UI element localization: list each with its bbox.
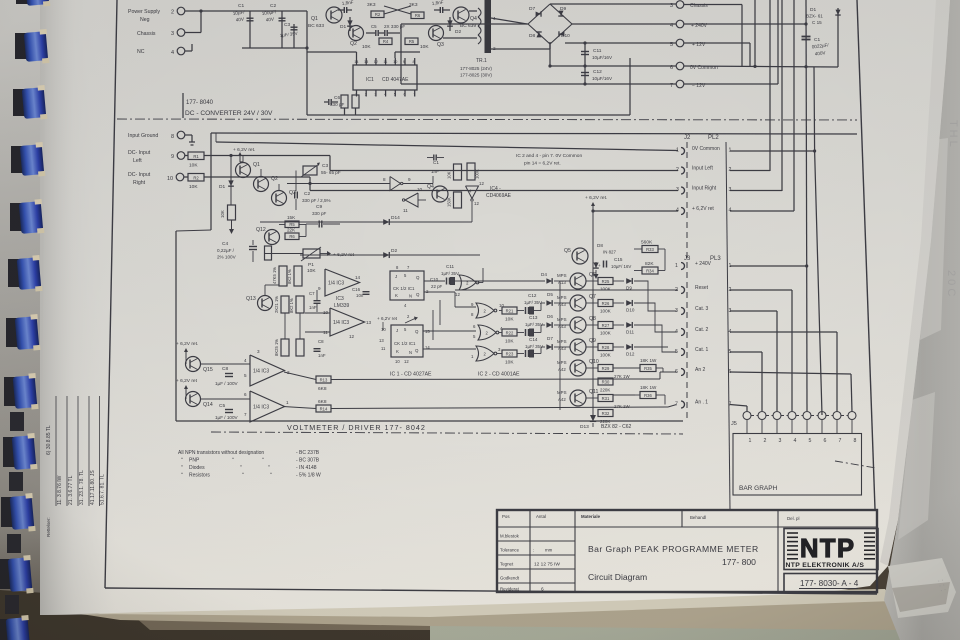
diode D1 converter xyxy=(349,17,351,31)
resistor network below IC1 xyxy=(341,95,348,108)
diode D1 voltmeter xyxy=(230,156,232,206)
wire J2 pin4 right xyxy=(730,210,794,212)
title block row lines xyxy=(497,540,575,542)
J5 dashed pin row xyxy=(751,415,758,417)
resistor R31 27K 1W xyxy=(586,397,598,399)
wire J3 pin2 to riser xyxy=(730,289,792,291)
transistor Q13 xyxy=(258,296,273,311)
PL2 PL3 column line xyxy=(726,142,730,510)
wire gate d output up xyxy=(478,282,484,284)
wires ff to gates xyxy=(424,291,455,293)
wire -12V to right xyxy=(684,83,779,85)
J5 pin 8 xyxy=(848,412,856,420)
transistor Q2 input xyxy=(254,177,269,192)
wire inverter chain xyxy=(403,183,433,185)
wire below IC1 xyxy=(307,114,630,116)
binder ring xyxy=(25,0,51,8)
wire IC1 pin9 up xyxy=(394,52,396,58)
binder ring xyxy=(14,314,40,352)
resistor R10 vertical xyxy=(296,296,304,313)
capacitor C11 converter xyxy=(584,43,586,66)
vertical wire input right riser xyxy=(781,0,783,191)
wire pot line xyxy=(264,253,303,255)
title block outer border xyxy=(497,510,877,592)
inverter IC4 c down xyxy=(466,186,479,199)
diode D13 BZX82-C62 xyxy=(590,415,596,421)
wire Q14 to opamp xyxy=(201,398,251,400)
binder hole xyxy=(1,497,13,527)
op-amp IC3 c xyxy=(250,355,285,386)
stacked sheets right side xyxy=(884,0,960,640)
connector dashed boundary xyxy=(686,142,688,420)
voltmeter section box left lower xyxy=(176,230,211,231)
binder hole xyxy=(15,33,27,59)
wire bridge top to chassis terminal xyxy=(550,3,676,5)
resistor R29 27K 1W xyxy=(586,367,598,369)
resistor R32 220K xyxy=(598,410,613,417)
binder hole xyxy=(8,259,20,287)
wire J2 pin3 right xyxy=(730,190,782,192)
J5 pin 1 xyxy=(743,412,751,420)
converter section box 177-8040 xyxy=(182,93,184,118)
set arrow marker xyxy=(405,318,416,323)
binder ring xyxy=(16,255,42,293)
binder hole xyxy=(10,203,22,231)
vertical wire +240V riser to PL3 xyxy=(805,0,808,266)
wire J3 pin7 to riser xyxy=(730,405,747,407)
binder hole xyxy=(3,437,15,467)
transistor Q4 xyxy=(453,7,469,23)
wire J2 pin1 right xyxy=(730,150,814,152)
vertical wire chassis drop xyxy=(741,5,743,67)
binder hole xyxy=(4,377,16,406)
wire +12V corner xyxy=(684,42,751,44)
wire from Q13 up xyxy=(264,285,266,296)
resistor R15 10K vertical xyxy=(454,164,462,180)
0V bus into J2 pin1 xyxy=(216,142,678,151)
resistor R26 100K xyxy=(586,302,598,304)
revision table rules xyxy=(55,396,57,506)
J5 pin 2 xyxy=(758,412,766,420)
wire R14 to right xyxy=(331,407,668,409)
resistor R5 10K xyxy=(405,38,418,45)
vertical wire x755 xyxy=(754,0,756,66)
wire J2 pin4 left xyxy=(593,210,678,212)
diode D2 converter xyxy=(449,17,451,31)
binder ring xyxy=(22,85,48,121)
resistor R4 10K xyxy=(379,38,392,45)
sheet frame left border xyxy=(105,0,117,588)
resistor R3 10K vertical xyxy=(228,205,236,220)
transistor Q14 xyxy=(186,392,201,407)
input ground symbol xyxy=(185,134,193,136)
binder hole xyxy=(16,0,28,4)
wire J3 pin6 to riser xyxy=(730,372,851,374)
J5 pin 4 xyxy=(788,412,796,420)
transistor Q3 input xyxy=(272,191,287,206)
wire +240V to right xyxy=(684,23,807,25)
wire input left bus xyxy=(204,155,330,157)
collector bus vertical xyxy=(592,273,594,419)
binder ring xyxy=(20,142,46,178)
diode D14 xyxy=(383,219,389,225)
flip-flop IC1 b xyxy=(391,325,423,357)
resistor R27 100K xyxy=(586,324,598,326)
inverter IC4 a xyxy=(390,177,401,191)
capacitor C2 330pF xyxy=(294,192,296,199)
binder hole xyxy=(0,619,9,640)
wire node down to IC1 xyxy=(306,11,308,115)
wire bridge right to +240V terminal xyxy=(572,23,676,25)
title block header line xyxy=(497,526,877,528)
J5 pin 7 xyxy=(833,412,841,420)
transistor Q1 xyxy=(326,7,342,23)
wire -12V loop xyxy=(401,83,676,85)
trimmer capacitor C3 xyxy=(303,166,317,175)
wire Q15 to opamp xyxy=(201,363,251,365)
resistor R7 47K5 vertical xyxy=(279,266,287,286)
flip-flop IC1 a xyxy=(390,271,424,300)
wires diode outputs to PL3 xyxy=(634,281,677,311)
wires opamp b inputs xyxy=(305,312,330,314)
resistor R16 150K vertical xyxy=(454,192,462,208)
resistor R22 10K xyxy=(499,332,502,334)
resistor R8 vertical xyxy=(294,266,302,286)
capacitor C2 xyxy=(281,11,283,48)
resistor R2 10K input xyxy=(184,176,189,178)
wire J3 pin5 to riser xyxy=(730,351,762,353)
wire +12V line xyxy=(565,42,676,44)
negative rail wire xyxy=(242,47,307,49)
wire Q4 to transformer xyxy=(469,10,477,12)
wire input right bus xyxy=(204,176,310,178)
binder ring xyxy=(11,433,37,471)
capacitor C1 xyxy=(249,11,251,48)
resistor R9 2K21 vertical xyxy=(281,296,289,313)
wire transformer secondary bottom xyxy=(491,48,550,50)
potentiometer P1 10K xyxy=(303,249,320,258)
binder ring xyxy=(24,29,50,65)
resistor R11 8K25 vertical xyxy=(281,339,289,356)
diode D2 voltmeter xyxy=(383,252,389,258)
wire D2 line xyxy=(300,254,480,256)
op-amp IC3 a xyxy=(325,269,360,296)
resistor RL vertical small xyxy=(265,246,272,260)
sheet frame right border xyxy=(857,0,875,509)
rectifier bridge D7 D8 D9 D10 xyxy=(528,4,572,44)
transistor Q3 xyxy=(429,26,444,41)
wire terminal 4 stub xyxy=(185,50,193,52)
wire chassis to vertical drop xyxy=(684,4,743,6)
resistor R23 10K xyxy=(497,353,502,355)
transistor Q15 xyxy=(186,357,201,372)
binder ring xyxy=(7,555,33,595)
transistor Q2 xyxy=(349,26,364,41)
vertical wire -12V up xyxy=(777,0,779,84)
binder hole xyxy=(6,318,18,347)
wire inverter c drop xyxy=(471,202,473,222)
wire J3 pin1 to riser xyxy=(730,265,807,267)
J5 pin 3 xyxy=(773,412,781,420)
transistor Q4 voltmeter xyxy=(432,186,448,202)
comparator input line xyxy=(287,183,390,185)
NOR gate IC2 b xyxy=(478,325,496,340)
capacitor C3 xyxy=(293,24,295,48)
op-amp IC3 d xyxy=(250,391,285,422)
title block verticals xyxy=(529,510,531,592)
NTP logo stripes left xyxy=(787,532,798,534)
wire R13 to right xyxy=(331,378,660,381)
fold mark dash-dot line lower xyxy=(211,432,683,434)
wire terminal 2 to converter xyxy=(185,10,308,12)
capacitor C12 converter xyxy=(584,66,586,84)
diode D9 xyxy=(613,280,624,282)
transistor Q5 xyxy=(572,248,588,264)
wire J2 pin2 right xyxy=(730,170,770,172)
diode D12 xyxy=(613,346,624,348)
wire J3 pin4 to riser xyxy=(730,331,837,333)
binder ring xyxy=(9,493,35,533)
resistor R17 100K vertical xyxy=(467,163,475,180)
vertical wire input left riser xyxy=(769,0,771,171)
wire attenuator links xyxy=(242,156,244,163)
binder ring xyxy=(5,615,31,640)
bar graph box xyxy=(733,434,862,496)
J5 pin 6 xyxy=(818,412,826,420)
binder hole xyxy=(11,146,23,173)
fold mark dash-dot segment right xyxy=(835,461,876,468)
wire J3 pin3 to riser xyxy=(730,310,777,312)
diode D11 xyxy=(613,324,624,326)
NTP logo box xyxy=(784,529,878,570)
emitter bus vertical xyxy=(559,281,561,410)
resistor R1 10K input xyxy=(185,155,189,157)
capacitor C1 0.022uF 400V xyxy=(802,36,811,38)
IC1 CD4047AE xyxy=(353,65,417,90)
binder ring xyxy=(12,373,38,411)
ground arrow below R3 xyxy=(231,220,233,229)
vertical wire +6.2V riser xyxy=(793,0,795,211)
resistor R21 10K xyxy=(499,310,502,312)
resistor R14 6K8 xyxy=(283,407,316,409)
sheet frame bottom border xyxy=(105,588,877,594)
NOR gate IC2 c xyxy=(476,346,494,361)
wire +240V riser to J5 xyxy=(806,266,808,411)
wire reset line xyxy=(455,289,678,291)
inverter IC4 b xyxy=(405,193,418,207)
wire terminal 3 xyxy=(185,32,202,34)
J5 pin 5 xyxy=(803,412,811,420)
wires around Q12 xyxy=(279,224,285,226)
transistor Q1 input xyxy=(236,163,251,178)
wire Q3 to transformer xyxy=(443,37,477,39)
resistor R28 100K xyxy=(586,346,598,348)
NTP logo stripes right xyxy=(864,532,875,534)
voltmeter section box top xyxy=(211,133,857,134)
wires R33 R34 node xyxy=(634,248,642,250)
resistor R25 100K xyxy=(586,280,598,282)
wire bridge bottom to 0V common xyxy=(549,44,551,66)
+6.2V ret arrow mid xyxy=(327,251,331,256)
wire 0V common to right xyxy=(684,66,839,67)
binder hole xyxy=(0,559,11,589)
resistor R12 vertical xyxy=(296,339,304,356)
crossing wires between driver stages xyxy=(384,6,411,14)
binder hole xyxy=(13,89,25,116)
transistor Q12 xyxy=(265,230,280,245)
diode D10 xyxy=(613,302,624,304)
binder ring xyxy=(19,199,45,235)
wire IC1 top bus xyxy=(307,51,357,53)
wire transformer secondary top xyxy=(491,18,527,24)
resistor R30 220K xyxy=(598,378,613,385)
transformer TR1 xyxy=(478,8,481,17)
fold mark dash-dot line upper xyxy=(117,119,857,120)
op-amp IC3 b xyxy=(330,308,365,336)
NOR gate IC2 a xyxy=(476,303,494,318)
resistor R13 6K8 xyxy=(284,372,316,380)
drawing number box xyxy=(784,574,877,593)
vertical wire 0V riser to bar graph xyxy=(814,67,822,415)
NOR gate IC2 d top xyxy=(459,275,476,290)
wire D14 line xyxy=(260,221,472,223)
